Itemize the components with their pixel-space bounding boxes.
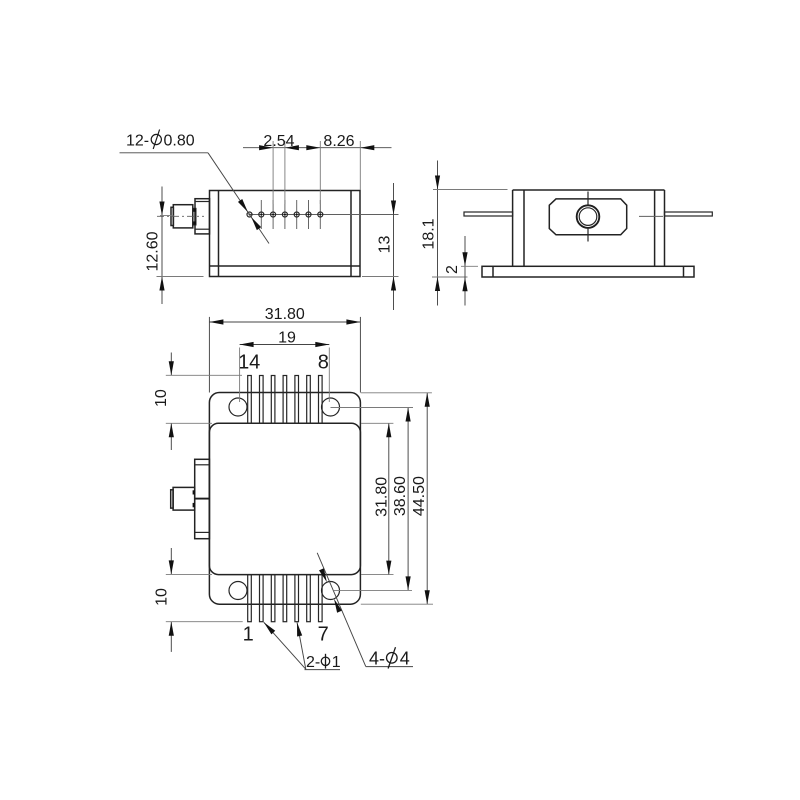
- svg-text:14: 14: [238, 351, 260, 373]
- svg-text:1: 1: [332, 654, 341, 671]
- side view: pin dots: [247, 212, 323, 217]
- svg-text:12.60: 12.60: [145, 231, 162, 271]
- front view: horizontal centerline: [639, 215, 663, 217]
- dimension 10 bottom: [153, 548, 242, 652]
- front view: right lead: [665, 212, 713, 216]
- front view: base flange: [482, 266, 694, 277]
- side view: fiber connector nut: [195, 199, 210, 234]
- plan view: top pins: [248, 376, 322, 424]
- dimension 8.26: [306, 133, 374, 204]
- plan view: mounting hole bottom-left: [229, 582, 247, 600]
- dimension 12.60: [145, 187, 204, 305]
- front view: vertical centerline: [587, 192, 589, 242]
- plan view: connector end cap: [171, 490, 173, 508]
- svg-text:12-: 12-: [126, 133, 149, 150]
- svg-text:8: 8: [318, 351, 329, 373]
- plan view: mounting hole top-right: [322, 398, 340, 416]
- svg-text:8.26: 8.26: [323, 133, 354, 150]
- front view: lens inner circle: [579, 208, 597, 226]
- svg-text:2: 2: [444, 265, 461, 274]
- svg-text:4: 4: [400, 649, 410, 669]
- front view: left lead: [464, 212, 513, 216]
- label 2-dia1: [306, 654, 341, 671]
- plan view: base flange plate: [209, 393, 360, 605]
- plan view: mounting hole bottom-right: [322, 582, 340, 600]
- front view: lens outer circle: [577, 205, 600, 228]
- label 12-dia0.80: [126, 130, 195, 150]
- plan view: connector cylinder: [173, 487, 195, 510]
- dimension 2: [444, 236, 478, 306]
- svg-text:18.1: 18.1: [420, 218, 437, 249]
- side view: connector end cap: [171, 207, 173, 225]
- plan view: bottom pins: [248, 575, 322, 622]
- dimension 19: [240, 329, 330, 402]
- svg-text:44.50: 44.50: [411, 476, 428, 516]
- leader 2-dia1: [262, 621, 340, 670]
- svg-text:4-: 4-: [369, 649, 385, 669]
- svg-text:10: 10: [153, 389, 170, 407]
- side view: connector cylinder: [173, 205, 193, 228]
- plan view: connector groove: [193, 490, 195, 507]
- dimension 31.80 vertical: [361, 423, 394, 574]
- dimension 18.1: [420, 161, 507, 306]
- svg-text:0.80: 0.80: [164, 133, 195, 150]
- svg-text:38.60: 38.60: [392, 476, 409, 516]
- side view: pin stems: [261, 200, 320, 229]
- plan view: body cover: [209, 423, 360, 574]
- svg-text:13: 13: [377, 236, 394, 254]
- svg-text:31.80: 31.80: [373, 477, 390, 517]
- dimension 10 top: [153, 353, 242, 451]
- dimension 13: [362, 183, 399, 310]
- dimension 31.80 horizontal: [209, 306, 360, 393]
- dimension 44.50: [361, 393, 433, 604]
- leader 4-dia4: [317, 553, 413, 667]
- side view: pin center line / 13-dim extension: [250, 214, 399, 216]
- side view: module body outline: [210, 191, 361, 277]
- svg-text:2-: 2-: [306, 654, 320, 671]
- plan view: mounting hole top-left: [229, 398, 247, 416]
- side view: connector groove: [193, 208, 197, 225]
- svg-text:1: 1: [243, 623, 254, 645]
- plan view: connector nut: [195, 459, 210, 538]
- svg-text:7: 7: [318, 624, 329, 646]
- side view: connector centerline: [157, 215, 204, 217]
- front view: body outline: [513, 190, 665, 266]
- front view: lens plate octagon: [549, 199, 626, 235]
- dimension 2.54: [243, 133, 392, 204]
- svg-text:10: 10: [153, 588, 170, 606]
- leader 12-dia0.80: [120, 153, 270, 244]
- svg-text:31.80: 31.80: [265, 306, 305, 323]
- svg-text:2.54: 2.54: [263, 133, 294, 150]
- dimension 38.60: [331, 408, 414, 591]
- svg-text:19: 19: [278, 329, 296, 346]
- label 4-dia4: [369, 647, 410, 668]
